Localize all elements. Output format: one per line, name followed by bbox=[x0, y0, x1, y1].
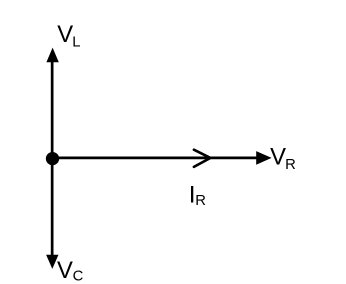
svg-text:V: V bbox=[57, 257, 74, 284]
svg-text:R: R bbox=[195, 193, 206, 209]
label V_L bbox=[57, 21, 80, 51]
label I_R bbox=[189, 182, 206, 209]
arrowhead right (phasor V_R tip) bbox=[256, 151, 271, 165]
label V_C bbox=[57, 257, 84, 284]
arrowhead up (phasor V_L) bbox=[46, 48, 58, 63]
arrow chevron mid (current direction I_R) bbox=[194, 150, 211, 167]
svg-text:V: V bbox=[57, 21, 74, 48]
svg-text:R: R bbox=[285, 157, 296, 173]
wire vertical axis shaft bbox=[51, 60, 54, 256]
svg-text:C: C bbox=[73, 268, 84, 284]
wire horizontal axis shaft bbox=[53, 156, 259, 159]
node origin (junction dot) bbox=[46, 152, 59, 165]
svg-text:L: L bbox=[72, 34, 80, 50]
arrowhead down (phasor V_C) bbox=[46, 255, 58, 269]
label V_R bbox=[270, 144, 296, 174]
